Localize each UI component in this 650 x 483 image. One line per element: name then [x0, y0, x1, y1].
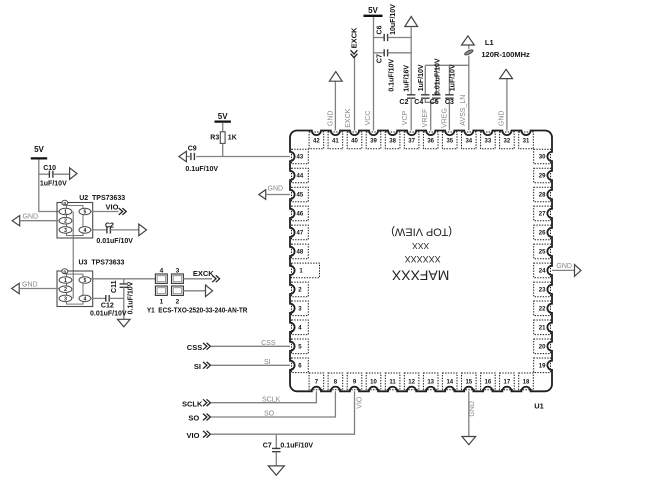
wire GND to U3 pin 2 — [19, 288, 59, 290]
power symbol 5V left — [31, 157, 47, 159]
op-amp U1 QFN-48 package outline — [290, 131, 552, 392]
svg-text:5V: 5V — [34, 145, 44, 154]
svg-text:47: 47 — [297, 231, 304, 237]
U1 pin 13 pad — [423, 373, 438, 390]
wire 5V to U2 pin 1 — [39, 160, 59, 212]
U1 pin 24 pad — [534, 263, 551, 278]
svg-text:GND: GND — [469, 401, 476, 417]
U1 pin 3 pad — [292, 301, 309, 316]
svg-text:31: 31 — [523, 139, 530, 145]
svg-text:43: 43 — [297, 155, 304, 161]
wire pin 15 to GND — [468, 391, 470, 436]
svg-text:EXCK: EXCK — [193, 269, 214, 278]
svg-text:0.1uF/10V: 0.1uF/10V — [185, 166, 218, 173]
svg-text:23: 23 — [539, 288, 546, 294]
ground symbol above C6 C7 — [405, 17, 418, 27]
wire C5 drop top — [435, 65, 437, 95]
wire L1 to GND — [468, 45, 470, 49]
svg-text:MAFXXX: MAFXXX — [391, 268, 449, 284]
svg-text:VCC: VCC — [365, 111, 372, 126]
port chevron EXCK left — [212, 275, 219, 282]
svg-text:27: 27 — [539, 212, 546, 218]
svg-text:2: 2 — [64, 287, 67, 293]
port chevron SI — [203, 362, 210, 369]
wire U3 pin 4 to C12 — [91, 297, 106, 299]
U1 pin 23 pad — [534, 282, 551, 297]
svg-text:29: 29 — [539, 174, 546, 180]
wire U2 U3 input rail — [72, 212, 74, 299]
svg-text:0.01uF/10V: 0.01uF/10V — [90, 310, 127, 317]
svg-text:2: 2 — [64, 219, 67, 225]
svg-text:32: 32 — [504, 139, 511, 145]
U1 pin 48 pad — [292, 244, 309, 259]
svg-text:45: 45 — [297, 193, 304, 199]
crystal oscillator Y1 — [155, 268, 183, 306]
U1 pin 29 pad — [534, 168, 551, 183]
capacitor C3 — [445, 95, 453, 98]
svg-text:36: 36 — [427, 139, 434, 145]
svg-text:GND: GND — [268, 186, 284, 193]
svg-text:SO: SO — [188, 414, 199, 423]
wire C9 left — [186, 156, 191, 158]
svg-text:3: 3 — [176, 268, 180, 275]
U1 pin 44 pad — [292, 168, 309, 183]
svg-text:34: 34 — [465, 139, 472, 145]
U1 pin 22 pad — [534, 301, 551, 316]
U1 pin 14 pad — [442, 373, 457, 390]
ground flag U2 — [12, 216, 20, 226]
svg-text:VREG: VREG — [442, 108, 449, 128]
svg-text:XXX: XXX — [412, 241, 429, 251]
wire C7 right — [388, 52, 412, 54]
svg-text:0.1uF/10V: 0.1uF/10V — [127, 281, 134, 314]
svg-text:GND: GND — [327, 111, 334, 127]
port triangle C10 — [70, 168, 77, 180]
port triangle C9 — [179, 151, 187, 161]
svg-text:16: 16 — [485, 380, 492, 386]
port triangle Y1 pad 2 — [206, 285, 213, 297]
svg-text:5V: 5V — [218, 112, 228, 121]
svg-text:5: 5 — [84, 210, 87, 216]
ground flag U3 — [12, 283, 20, 293]
U1 pin 30 pad — [534, 149, 551, 164]
svg-text:(TOP VIEW): (TOP VIEW) — [391, 225, 452, 237]
wire pin 32 to GND — [506, 79, 508, 131]
svg-text:GND: GND — [556, 263, 572, 270]
wire CSS to pin 5 — [211, 345, 290, 347]
svg-text:38: 38 — [389, 139, 396, 145]
svg-text:48: 48 — [297, 250, 304, 256]
svg-text:1uF/16V: 1uF/16V — [404, 65, 411, 92]
U1 pin 19 pad — [534, 358, 551, 373]
svg-text:SI: SI — [264, 359, 271, 366]
wire C7 left — [374, 52, 385, 54]
svg-text:SCLK: SCLK — [182, 399, 203, 408]
ground flag pin 45 — [259, 190, 266, 200]
U1 pin 37 pad — [404, 132, 419, 149]
ground symbol above pin 32 — [500, 69, 513, 78]
U1 pin 35 pad — [442, 132, 457, 149]
wire VIO to pin 9 — [211, 391, 355, 434]
port chevron VIO out — [119, 208, 126, 215]
svg-text:1: 1 — [64, 210, 67, 216]
svg-text:0.1uF/10V: 0.1uF/10V — [389, 59, 396, 92]
svg-text:1: 1 — [160, 299, 164, 306]
wire pin 40 EXCK — [354, 58, 356, 131]
svg-text:U1: U1 — [534, 401, 544, 410]
svg-text:SCLK: SCLK — [262, 396, 281, 403]
svg-text:18: 18 — [523, 380, 530, 386]
U1 pin 20 pad — [534, 339, 551, 354]
U1 pin 6 pad — [292, 358, 309, 373]
svg-text:5V: 5V — [368, 6, 378, 15]
svg-text:EXCK: EXCK — [349, 27, 358, 48]
svg-text:11: 11 — [389, 380, 396, 386]
wire C6 right — [388, 37, 412, 39]
svg-text:VIO: VIO — [106, 202, 119, 211]
svg-text:46: 46 — [297, 212, 304, 218]
svg-text:VREF: VREF — [422, 109, 429, 128]
svg-text:30: 30 — [539, 155, 546, 161]
wire 5V to R3 — [222, 123, 224, 132]
svg-text:26: 26 — [539, 231, 546, 237]
U1 pin 28 pad — [534, 187, 551, 202]
svg-text:35: 35 — [446, 139, 453, 145]
wire U2 pin 5 VIO out — [91, 211, 119, 213]
svg-text:CSS: CSS — [261, 340, 276, 347]
port chevron SO — [203, 414, 210, 421]
svg-text:C10: C10 — [43, 165, 56, 172]
wire U2 pin 4 to C2 — [91, 229, 107, 231]
svg-text:3: 3 — [64, 296, 67, 302]
svg-text:25: 25 — [539, 250, 546, 256]
svg-text:28: 28 — [539, 193, 546, 199]
svg-text:39: 39 — [370, 139, 377, 145]
U1 pin 36 pad — [423, 132, 438, 149]
wire VREF pin 36 — [430, 102, 432, 130]
wire SCLK to pin 7 — [211, 391, 317, 402]
svg-text:CSS: CSS — [187, 343, 202, 352]
wire AVSS bus — [425, 64, 469, 66]
svg-text:C11: C11 — [111, 280, 118, 293]
wire C10 to port — [53, 173, 70, 175]
svg-text:0.01uF/10V: 0.01uF/10V — [96, 238, 133, 245]
power symbol 5V R3 — [215, 120, 231, 122]
ground symbol above L1 — [462, 36, 475, 45]
U1 pin 18 pad — [519, 373, 534, 390]
U1 pin 4 pad — [292, 320, 309, 335]
U1 pin 42 pad — [309, 132, 324, 149]
wire pin 34 AVSS_LN up — [468, 56, 470, 131]
svg-text:SI: SI — [194, 362, 201, 371]
svg-text:1: 1 — [64, 278, 67, 284]
port chevron EXCK top — [351, 50, 358, 57]
svg-text:14: 14 — [446, 380, 453, 386]
svg-text:C5: C5 — [430, 99, 439, 106]
svg-text:C4: C4 — [414, 99, 423, 106]
svg-text:C7: C7 — [263, 443, 272, 450]
svg-text:42: 42 — [313, 139, 320, 145]
U1 pin 12 pad — [404, 373, 419, 390]
svg-text:17: 17 — [504, 380, 511, 386]
svg-text:C7: C7 — [377, 54, 384, 63]
svg-text:C2: C2 — [399, 99, 408, 106]
svg-text:GND: GND — [22, 281, 38, 288]
svg-text:VCP: VCP — [402, 110, 409, 125]
svg-text:L1: L1 — [485, 38, 494, 47]
wire U3 pin 5 to Y1 pad 4 — [91, 278, 156, 280]
U1 pin 38 pad — [385, 132, 400, 149]
U1 pin 40 pad — [347, 132, 362, 149]
U1 pin 27 pad — [534, 206, 551, 221]
svg-text:12: 12 — [408, 380, 415, 386]
svg-text:0.1uF/10V: 0.1uF/10V — [280, 443, 313, 450]
U1 pin 10 pad — [366, 373, 381, 390]
U1 pin 32 pad — [500, 132, 515, 149]
U1 pin 1 pad — [292, 263, 320, 278]
wire C7 drop — [275, 434, 277, 448]
svg-text:5: 5 — [84, 278, 87, 284]
U1 pin 33 pad — [481, 132, 496, 149]
svg-text:C9: C9 — [188, 146, 197, 153]
svg-text:22: 22 — [539, 307, 546, 313]
wire C5 bottom — [435, 98, 437, 102]
wire R3 to node — [222, 143, 224, 156]
svg-text:SO: SO — [264, 411, 275, 418]
capacitor C7 bottom — [272, 448, 280, 451]
capacitor C7 top — [384, 49, 387, 56]
ground symbol above pin 41 — [329, 72, 342, 82]
port chevron CSS — [203, 343, 210, 350]
svg-text:33: 33 — [485, 139, 492, 145]
svg-text:0.01uF/10V: 0.01uF/10V — [434, 58, 441, 95]
wire C4 drop top — [424, 65, 426, 95]
wire Y1 pad 2 to port — [183, 290, 205, 292]
svg-text:GND: GND — [498, 111, 505, 127]
svg-text:GND: GND — [23, 214, 39, 221]
wire C3 drop top — [448, 65, 450, 95]
svg-text:2: 2 — [176, 299, 180, 306]
svg-text:20: 20 — [539, 345, 546, 351]
svg-text:40: 40 — [351, 139, 358, 145]
svg-text:U2 TPS73633: U2 TPS73633 — [79, 195, 125, 202]
U1 pin 41 pad — [328, 132, 343, 149]
port chevron SCLK — [203, 399, 210, 406]
U1 pin 9 pad — [347, 373, 362, 390]
wire pin 24 to GND — [552, 269, 575, 271]
capacitor C5 — [432, 95, 440, 98]
inductor L1 ferrite bead — [464, 49, 474, 56]
U1 pin 16 pad — [481, 373, 496, 390]
capacitor C11 — [120, 284, 128, 287]
svg-text:EXCK: EXCK — [345, 108, 352, 127]
svg-text:C12: C12 — [101, 302, 114, 309]
wire pin 41 to GND — [334, 81, 336, 130]
capacitor C12 — [106, 295, 109, 302]
wire pin 39 VCC to 5V — [373, 17, 375, 131]
regulator U3 TPS73633 — [57, 269, 93, 307]
capacitor C6 — [384, 34, 387, 41]
ground symbol below pin 15 — [462, 437, 476, 445]
wire SI to pin 6 — [211, 364, 290, 366]
capacitor C10 — [49, 171, 53, 178]
svg-text:C6: C6 — [377, 25, 384, 34]
wire C3 to pin 35 VREG — [448, 98, 450, 130]
wire C9 node to pin 43 — [196, 156, 290, 158]
U1 pin 25 pad — [534, 244, 551, 259]
svg-text:R3: R3 — [210, 135, 219, 142]
svg-text:10uF/10V: 10uF/10V — [390, 4, 397, 35]
U1 pin 5 pad — [292, 339, 309, 354]
port triangle C2 left — [139, 224, 147, 236]
U1 pin 7 pad — [309, 373, 324, 390]
U1 pin 46 pad — [292, 206, 309, 221]
svg-text:VIO: VIO — [357, 396, 364, 409]
svg-text:Y1 ECS-TXO-2520-33-240-AN-TR: Y1 ECS-TXO-2520-33-240-AN-TR — [147, 308, 248, 315]
U1 pin 15 pad — [462, 373, 477, 390]
svg-text:3: 3 — [64, 228, 67, 234]
svg-text:C2: C2 — [105, 223, 114, 230]
U1 pin 17 pad — [500, 373, 515, 390]
svg-text:AVSS_LN: AVSS_LN — [460, 95, 467, 126]
svg-text:1uF/10V: 1uF/10V — [418, 64, 425, 91]
svg-text:1uF/10V: 1uF/10V — [449, 64, 456, 91]
svg-text:15: 15 — [465, 380, 472, 386]
wire Y1 pad 3 EXCK out — [183, 278, 212, 280]
svg-text:4: 4 — [160, 268, 164, 275]
svg-text:24: 24 — [539, 269, 546, 275]
U1 pin 45 pad — [292, 187, 309, 202]
wire SO to pin 8 — [211, 391, 336, 417]
svg-text:C3: C3 — [445, 99, 454, 106]
svg-text:37: 37 — [408, 139, 415, 145]
ground symbol below C11 — [118, 319, 131, 327]
wire GND column to C2 — [410, 27, 412, 95]
U1 pin 26 pad — [534, 225, 551, 240]
capacitor C9 — [191, 153, 195, 160]
U1 pin 11 pad — [385, 373, 400, 390]
wire 5V to C10 — [39, 173, 50, 175]
svg-text:4: 4 — [84, 296, 87, 302]
U1 pin 31 pad — [519, 132, 534, 149]
port chevron VIO — [203, 431, 210, 438]
U1 pin 8 pad — [328, 373, 343, 390]
regulator U2 TPS73633 — [57, 200, 93, 238]
U1 pin 43 pad — [292, 149, 309, 164]
svg-text:1uF/10V: 1uF/10V — [40, 180, 67, 187]
ground symbol below C7 — [268, 466, 284, 475]
wire C7 to GND — [275, 452, 277, 466]
wire C12 to GND column — [109, 297, 124, 299]
svg-text:10: 10 — [370, 380, 377, 386]
capacitor C2 top — [407, 95, 415, 98]
wire C2 to pin 37 VCP — [410, 98, 412, 130]
capacitor C2 left — [107, 226, 111, 233]
svg-text:XXXXXX: XXXXXX — [405, 254, 441, 264]
svg-text:120R-100MHz: 120R-100MHz — [481, 50, 530, 59]
svg-text:44: 44 — [297, 174, 304, 180]
wire GND to pin 45 — [266, 194, 290, 196]
power symbol 5V top — [364, 15, 383, 17]
svg-text:1K: 1K — [228, 135, 237, 142]
resistor R3 — [220, 132, 225, 144]
U1 pin 34 pad — [462, 132, 477, 149]
svg-text:U3 TPS73633: U3 TPS73633 — [79, 259, 125, 266]
wire C2 to port — [110, 229, 138, 231]
U1 pin 39 pad — [366, 132, 381, 149]
U1 pin 2 pad — [292, 282, 309, 297]
wire C6 left — [374, 37, 385, 39]
wire GND to U2 pin 2 — [20, 220, 59, 222]
svg-text:19: 19 — [539, 364, 546, 370]
wire C11 drop — [123, 279, 125, 284]
svg-text:13: 13 — [427, 380, 434, 386]
U1 pin 47 pad — [292, 225, 309, 240]
svg-text:VIO: VIO — [187, 431, 200, 440]
svg-text:41: 41 — [332, 139, 339, 145]
svg-text:21: 21 — [539, 326, 546, 332]
wire C4 bottom jog — [425, 98, 436, 102]
capacitor C4 — [421, 95, 429, 98]
wire C11 to GND — [123, 287, 125, 319]
U1 pin 21 pad — [534, 320, 551, 335]
port triangle GND pin 24 — [575, 265, 582, 277]
svg-text:4: 4 — [84, 228, 87, 234]
